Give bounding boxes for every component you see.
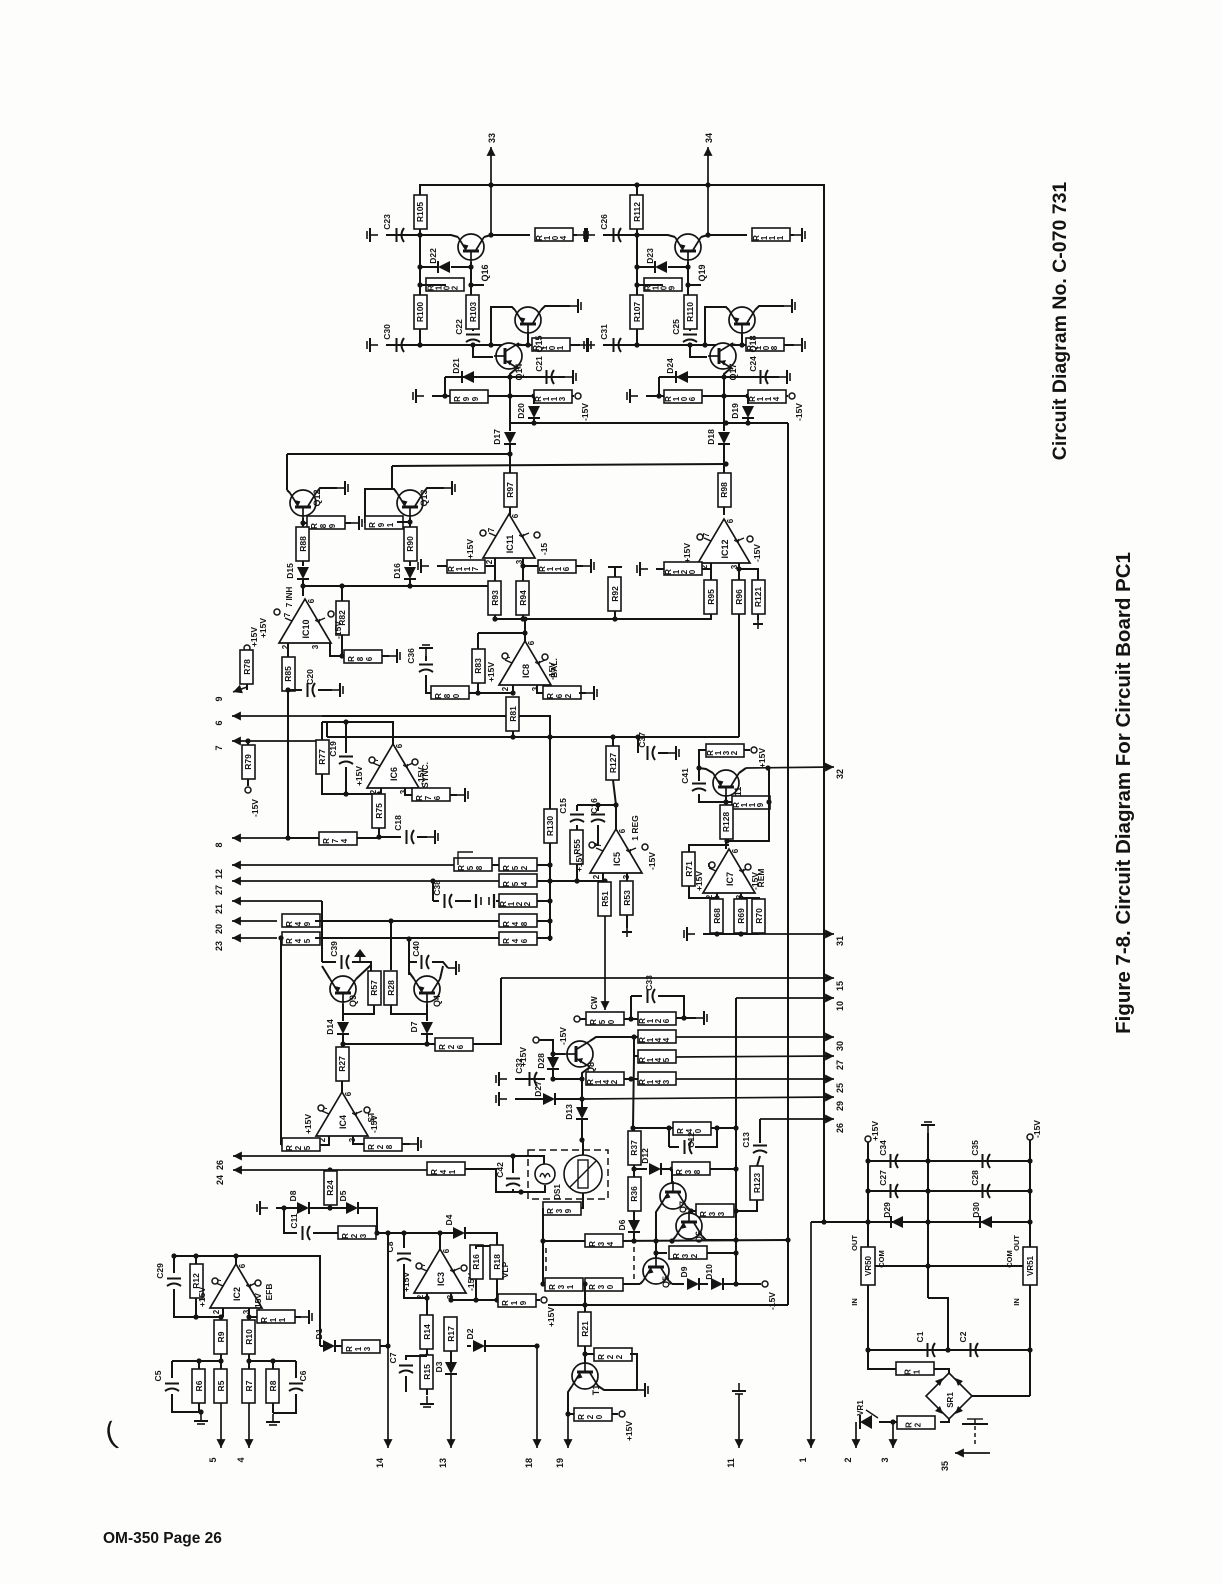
pin 1 arrow bbox=[810, 1222, 812, 1448]
svg-text:Q4: Q4 bbox=[432, 995, 442, 1007]
svg-text:R: R bbox=[341, 1233, 350, 1239]
junction bbox=[705, 232, 710, 237]
svg-text:+15V: +15V bbox=[486, 662, 496, 682]
resistor R128 bbox=[720, 805, 733, 839]
junction bbox=[417, 232, 422, 237]
svg-text:CW: CW bbox=[590, 996, 599, 1010]
svg-text:8: 8 bbox=[443, 693, 452, 698]
junction bbox=[488, 182, 493, 187]
wire bbox=[631, 995, 642, 997]
resistor R46 bbox=[499, 932, 537, 945]
junction bbox=[343, 719, 348, 724]
junction bbox=[430, 878, 435, 883]
power terminal +15V bbox=[619, 1411, 625, 1417]
svg-text:9: 9 bbox=[471, 396, 480, 401]
wire bbox=[613, 780, 616, 829]
svg-text:R: R bbox=[546, 693, 555, 699]
ground bbox=[687, 933, 695, 935]
svg-text:2: 2 bbox=[586, 1414, 595, 1419]
pin 27 arrow bbox=[232, 880, 499, 882]
capacitor C25 bbox=[683, 334, 697, 336]
wire bbox=[811, 1221, 1030, 1223]
svg-text:2: 2 bbox=[501, 686, 510, 691]
wire bbox=[699, 1283, 708, 1285]
svg-text:R: R bbox=[672, 1253, 681, 1259]
wire bbox=[343, 1043, 435, 1045]
svg-text:-15V: -15V bbox=[752, 544, 762, 562]
wire bbox=[636, 229, 638, 300]
wire bbox=[604, 881, 606, 884]
svg-text:R: R bbox=[347, 656, 356, 662]
wire bbox=[326, 722, 328, 737]
svg-text:R: R bbox=[285, 1145, 294, 1151]
wire bbox=[688, 284, 701, 286]
svg-text:R70: R70 bbox=[754, 908, 764, 924]
junction bbox=[721, 393, 726, 398]
resistor R15 bbox=[420, 1355, 433, 1389]
wire bbox=[786, 395, 788, 397]
resistor R37 bbox=[628, 1131, 641, 1165]
wire bbox=[491, 234, 530, 236]
wire bbox=[698, 768, 700, 781]
pin 2 arrow bbox=[855, 1422, 857, 1448]
svg-text:7 INH: 7 INH bbox=[285, 587, 294, 608]
wire bbox=[409, 561, 411, 566]
junction bbox=[631, 1238, 636, 1243]
svg-text:1: 1 bbox=[798, 1457, 808, 1462]
power terminal -15V bbox=[574, 1016, 580, 1022]
resistor R83 bbox=[472, 649, 485, 683]
resistor R121 bbox=[752, 580, 765, 614]
resistor R112 bbox=[630, 195, 643, 229]
power terminal -15V bbox=[575, 393, 581, 399]
wire bbox=[365, 489, 397, 522]
svg-text:5: 5 bbox=[303, 1145, 312, 1150]
transistor Q4 bbox=[414, 976, 440, 1002]
wire bbox=[397, 521, 410, 523]
junction bbox=[702, 342, 707, 347]
wire bbox=[272, 1361, 274, 1370]
resistor R93 bbox=[488, 581, 501, 615]
wire bbox=[726, 801, 732, 803]
wire bbox=[376, 1232, 440, 1234]
svg-text:R103: R103 bbox=[468, 302, 478, 323]
wire bbox=[640, 1281, 643, 1284]
resistor R113 bbox=[534, 390, 572, 403]
svg-text:4: 4 bbox=[340, 838, 349, 843]
op-amp IC12 bbox=[698, 519, 750, 563]
svg-text:5: 5 bbox=[511, 881, 520, 886]
resistor R58 bbox=[454, 858, 492, 871]
svg-text:IC4: IC4 bbox=[338, 1115, 348, 1129]
svg-text:4: 4 bbox=[439, 1169, 448, 1174]
wire bbox=[689, 344, 691, 345]
wire right rail A bbox=[787, 423, 789, 1305]
wire bbox=[173, 1256, 175, 1273]
pin 19 arrow bbox=[567, 1414, 569, 1448]
svg-text:R: R bbox=[285, 938, 294, 944]
svg-text:IC12: IC12 bbox=[720, 539, 730, 558]
wire bbox=[329, 1170, 331, 1172]
wire bbox=[584, 1284, 586, 1313]
svg-text:R78: R78 bbox=[242, 659, 252, 675]
svg-text:1: 1 bbox=[448, 1169, 457, 1174]
wire bbox=[568, 1413, 574, 1415]
junction bbox=[468, 282, 473, 287]
ground bbox=[301, 1316, 309, 1318]
wire bbox=[630, 996, 632, 1019]
svg-text:C42: C42 bbox=[495, 1162, 505, 1178]
svg-text:R: R bbox=[502, 938, 511, 944]
svg-text:12: 12 bbox=[214, 869, 224, 879]
transistor Q11 bbox=[713, 770, 739, 796]
power terminal +15V bbox=[865, 1136, 871, 1142]
junction bbox=[510, 690, 515, 695]
wire base bbox=[655, 1241, 657, 1258]
pin 15 arrow bbox=[501, 977, 834, 979]
svg-text:-15V: -15V bbox=[580, 403, 590, 421]
op-amp IC8 bbox=[499, 641, 551, 685]
svg-text:IC10: IC10 bbox=[301, 619, 311, 638]
svg-text:27: 27 bbox=[835, 1060, 845, 1070]
wire bbox=[736, 1200, 757, 1211]
diode D15 bbox=[297, 567, 309, 579]
wire bbox=[509, 377, 511, 423]
resistor R38 bbox=[672, 1162, 710, 1175]
power terminal -15V bbox=[1027, 1134, 1033, 1140]
wire bbox=[656, 1252, 667, 1254]
svg-text:R: R bbox=[260, 1317, 269, 1323]
wire bbox=[220, 1354, 222, 1370]
wire base bbox=[671, 1169, 673, 1183]
op-amp IC3 bbox=[414, 1249, 466, 1293]
wire bbox=[379, 836, 401, 838]
junction bbox=[582, 1302, 587, 1307]
wire bbox=[710, 614, 712, 619]
transistor Q12 bbox=[290, 490, 316, 516]
svg-text:29: 29 bbox=[835, 1101, 845, 1111]
wire driver bus bbox=[420, 344, 580, 346]
wire bbox=[402, 1143, 410, 1145]
power terminal -15V bbox=[642, 844, 648, 850]
wire bbox=[322, 716, 550, 845]
wire bbox=[659, 376, 779, 378]
svg-text:3: 3 bbox=[557, 1284, 566, 1289]
wire bbox=[426, 1004, 428, 1021]
svg-text:R: R bbox=[438, 1044, 447, 1050]
wire bbox=[491, 307, 515, 345]
capacitor C39 bbox=[341, 955, 343, 969]
wire bbox=[634, 1037, 639, 1056]
junction bbox=[739, 342, 744, 347]
svg-text:9: 9 bbox=[377, 522, 386, 527]
wire bbox=[634, 1036, 638, 1038]
wire bbox=[512, 1156, 514, 1173]
junction bbox=[401, 1230, 406, 1235]
svg-text:5: 5 bbox=[598, 1019, 607, 1024]
svg-text:C21: C21 bbox=[534, 356, 544, 372]
svg-text:R83: R83 bbox=[473, 658, 483, 674]
wire bbox=[716, 898, 718, 901]
svg-text:Q15: Q15 bbox=[534, 335, 544, 352]
wire bbox=[633, 1165, 635, 1169]
svg-text:C19: C19 bbox=[328, 741, 338, 757]
junction bbox=[579, 1076, 584, 1081]
capacitor C30 bbox=[396, 338, 398, 352]
wire bbox=[485, 558, 495, 566]
svg-text:C1: C1 bbox=[915, 1331, 925, 1342]
capacitor C11 bbox=[302, 1226, 304, 1240]
svg-text:4: 4 bbox=[606, 1241, 615, 1246]
wire bbox=[972, 1395, 1030, 1397]
svg-text:1: 1 bbox=[913, 1369, 922, 1374]
wire bbox=[543, 1240, 585, 1242]
resistor R80 bbox=[431, 686, 469, 699]
pin 33 arrow bbox=[490, 147, 492, 235]
wire bbox=[475, 1279, 477, 1300]
svg-text:9: 9 bbox=[303, 921, 312, 926]
power terminal -15V bbox=[745, 864, 751, 870]
wire bbox=[517, 344, 522, 345]
wire bbox=[358, 1208, 377, 1233]
resistor R10 bbox=[242, 1320, 255, 1354]
diode D9 bbox=[687, 1278, 699, 1290]
resistor R119 bbox=[732, 796, 770, 809]
wire bbox=[496, 1279, 498, 1300]
svg-text:C25: C25 bbox=[671, 319, 681, 335]
capacitor C33 bbox=[647, 989, 649, 1003]
wire bbox=[509, 507, 511, 515]
wire base bbox=[553, 1053, 565, 1055]
resistor R92 bbox=[608, 577, 621, 611]
junction bbox=[246, 1314, 251, 1319]
resistor R143 bbox=[638, 1072, 676, 1085]
svg-text:6: 6 bbox=[520, 938, 529, 943]
wire bbox=[248, 1354, 250, 1370]
capacitor C8 bbox=[397, 1253, 411, 1255]
ground bbox=[332, 689, 340, 691]
power terminal -15V bbox=[328, 611, 334, 617]
ground bbox=[570, 305, 578, 307]
junction bbox=[300, 520, 305, 525]
svg-text:R123: R123 bbox=[752, 1173, 762, 1194]
wire bbox=[288, 689, 302, 691]
link hook bbox=[458, 852, 473, 865]
transistor Q15 bbox=[515, 307, 541, 333]
wire bbox=[603, 344, 637, 346]
wire bbox=[731, 344, 736, 345]
power terminal -15V bbox=[245, 787, 251, 793]
svg-text:IC5: IC5 bbox=[612, 852, 622, 866]
junction bbox=[196, 1358, 201, 1363]
svg-text:-15V: -15V bbox=[547, 662, 557, 680]
junction bbox=[550, 1051, 555, 1056]
svg-text:26: 26 bbox=[215, 1160, 225, 1170]
capacitor C21 bbox=[546, 370, 548, 384]
svg-text:R69: R69 bbox=[736, 908, 746, 924]
svg-text:3: 3 bbox=[708, 1211, 717, 1216]
junction bbox=[385, 1230, 390, 1235]
wire bbox=[521, 1185, 545, 1192]
svg-text:8: 8 bbox=[693, 1169, 702, 1174]
svg-text:R75: R75 bbox=[374, 803, 384, 819]
wire bbox=[868, 1350, 896, 1369]
svg-text:9: 9 bbox=[564, 1208, 573, 1213]
capacitor C5 bbox=[165, 1383, 179, 1385]
wire bbox=[174, 1289, 221, 1317]
svg-text:R: R bbox=[457, 865, 466, 871]
resistor R105 bbox=[414, 195, 427, 229]
junction bbox=[470, 342, 475, 347]
transistor Q18 bbox=[729, 307, 755, 333]
wire bbox=[549, 843, 551, 941]
resistor R123 bbox=[750, 1166, 763, 1200]
resistor R52 bbox=[499, 858, 537, 871]
svg-text:R: R bbox=[345, 1346, 354, 1352]
resistor R50 bbox=[586, 1012, 624, 1025]
junction bbox=[582, 1281, 587, 1286]
svg-text:2: 2 bbox=[730, 750, 739, 755]
svg-text:D17: D17 bbox=[492, 429, 502, 445]
junction bbox=[634, 342, 639, 347]
svg-text:D4: D4 bbox=[444, 1214, 454, 1225]
junction bbox=[385, 1343, 390, 1348]
svg-text:R: R bbox=[905, 1422, 914, 1428]
wire bbox=[248, 1317, 250, 1321]
power terminal +15V bbox=[751, 747, 757, 753]
wire bbox=[439, 1233, 441, 1249]
junction bbox=[705, 182, 710, 187]
wire bbox=[426, 675, 431, 693]
wire net 20 drop bbox=[390, 921, 392, 970]
svg-text:8: 8 bbox=[520, 921, 529, 926]
wire bbox=[738, 563, 740, 569]
svg-text:Q16: Q16 bbox=[480, 264, 490, 281]
resistor R69 bbox=[734, 899, 747, 933]
junction bbox=[653, 1238, 658, 1243]
wire bbox=[450, 1293, 452, 1302]
resistor R79 bbox=[242, 745, 255, 779]
svg-text:C8: C8 bbox=[385, 1241, 395, 1252]
svg-text:R: R bbox=[589, 1019, 598, 1025]
junction bbox=[547, 898, 552, 903]
svg-text:6: 6 bbox=[433, 795, 442, 800]
wire bbox=[295, 1361, 297, 1378]
resistor R16 bbox=[470, 1245, 483, 1279]
wire bbox=[222, 1308, 224, 1317]
wire bbox=[302, 561, 304, 566]
wire bbox=[747, 418, 749, 423]
resistor R20 bbox=[574, 1408, 612, 1421]
diode D29 bbox=[891, 1216, 903, 1228]
svg-text:OUT: OUT bbox=[1012, 1235, 1021, 1251]
diode D23 bbox=[655, 261, 667, 273]
resistor R110 bbox=[684, 295, 697, 329]
svg-text:R36: R36 bbox=[629, 1186, 639, 1202]
wire bbox=[419, 229, 421, 300]
svg-text:R: R bbox=[588, 1284, 597, 1290]
wire bbox=[725, 839, 727, 849]
svg-text:2: 2 bbox=[914, 1422, 923, 1427]
junction bbox=[669, 1238, 674, 1243]
wire bbox=[740, 898, 742, 901]
wire bbox=[420, 284, 446, 286]
wire bbox=[515, 1098, 543, 1100]
wire bbox=[576, 565, 583, 567]
transistor Q7 bbox=[660, 1183, 686, 1209]
resistor R12 bbox=[190, 1264, 203, 1298]
svg-text:34: 34 bbox=[704, 133, 714, 143]
svg-text:32: 32 bbox=[835, 769, 845, 779]
power terminal +15V bbox=[533, 1037, 539, 1043]
ground bbox=[637, 1389, 645, 1391]
wire bbox=[584, 1346, 586, 1363]
wire bbox=[198, 1361, 200, 1370]
wire bbox=[580, 1018, 586, 1020]
svg-text:-15V: -15V bbox=[767, 1292, 777, 1310]
junction bbox=[540, 1238, 545, 1243]
capacitor C6 bbox=[289, 1383, 303, 1385]
svg-text:+15V: +15V bbox=[624, 1421, 634, 1441]
varistor VR1 bbox=[860, 1415, 872, 1429]
wire bbox=[410, 585, 490, 587]
wire bbox=[220, 1317, 222, 1320]
pin 12 arrow bbox=[232, 864, 455, 866]
svg-text:11: 11 bbox=[726, 1458, 736, 1468]
wire base jog bbox=[473, 345, 493, 357]
svg-text:+15V: +15V bbox=[197, 1287, 207, 1307]
wire bbox=[341, 586, 343, 601]
capacitor C28 bbox=[982, 1184, 984, 1198]
junction bbox=[688, 1208, 693, 1213]
wire pin2 bbox=[287, 643, 289, 660]
capacitor C7 bbox=[399, 1365, 413, 1367]
svg-text:10: 10 bbox=[835, 1001, 845, 1011]
resistor R57 bbox=[368, 971, 381, 1005]
capacitor C22 bbox=[466, 334, 480, 336]
junction bbox=[736, 566, 741, 571]
svg-text:R93: R93 bbox=[490, 590, 500, 606]
junction bbox=[733, 1125, 738, 1130]
wire bbox=[515, 1078, 545, 1080]
ground bbox=[200, 1413, 202, 1421]
pin 30 arrow bbox=[676, 1036, 834, 1038]
svg-text:8: 8 bbox=[356, 656, 365, 661]
svg-text:-15V: -15V bbox=[794, 403, 804, 421]
junction bbox=[574, 878, 579, 883]
resistor R89 bbox=[307, 516, 345, 529]
svg-text:D14: D14 bbox=[325, 1019, 335, 1035]
svg-text:Q9: Q9 bbox=[348, 995, 358, 1007]
wire bbox=[322, 961, 336, 963]
wire pin3 bbox=[353, 1136, 364, 1144]
svg-text:R110: R110 bbox=[685, 302, 695, 322]
wire bbox=[533, 418, 535, 423]
svg-text:D13: D13 bbox=[564, 1104, 574, 1120]
junction bbox=[233, 1253, 238, 1258]
svg-text:C37: C37 bbox=[637, 732, 647, 748]
wire bbox=[315, 920, 499, 922]
svg-text:6: 6 bbox=[662, 1018, 671, 1023]
wire emitter bbox=[420, 235, 458, 237]
diode D17 bbox=[504, 432, 516, 444]
wire bbox=[879, 1421, 886, 1423]
op-amp IC4 bbox=[316, 1092, 368, 1136]
wire bbox=[708, 234, 747, 236]
pin 29 arrow bbox=[582, 1097, 834, 1099]
resistor R6 bbox=[192, 1369, 205, 1403]
resistor R78 bbox=[240, 650, 253, 684]
